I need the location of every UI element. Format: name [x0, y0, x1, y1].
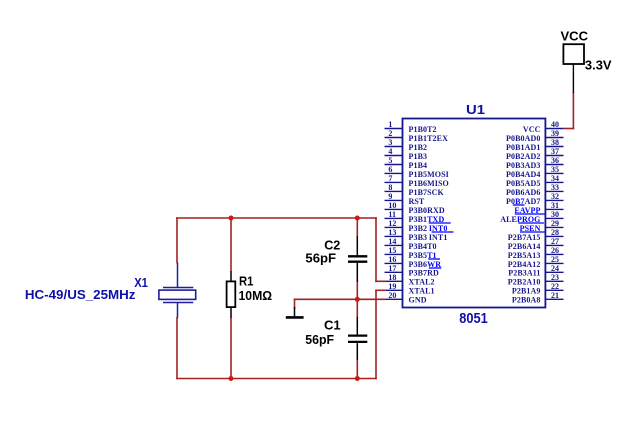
svg-text:15: 15 — [388, 246, 396, 255]
svg-text:5: 5 — [388, 156, 392, 165]
svg-text:26: 26 — [551, 246, 559, 255]
svg-text:3.3V: 3.3V — [585, 58, 612, 73]
svg-text:37: 37 — [551, 147, 559, 156]
svg-text:14: 14 — [388, 237, 396, 246]
svg-text:34: 34 — [551, 174, 559, 183]
svg-text:RST: RST — [409, 197, 425, 206]
svg-text:11: 11 — [388, 210, 396, 219]
svg-text:P2B6A14: P2B6A14 — [508, 242, 541, 251]
svg-text:16: 16 — [388, 255, 396, 264]
svg-text:P1B7SCK: P1B7SCK — [409, 188, 445, 197]
svg-text:C1: C1 — [324, 318, 341, 333]
svg-text:VCC: VCC — [561, 29, 589, 44]
svg-text:8051: 8051 — [459, 310, 488, 327]
svg-text:P2B2A10: P2B2A10 — [508, 278, 541, 287]
svg-text:32: 32 — [551, 192, 559, 201]
svg-text:P2B1A9: P2B1A9 — [512, 287, 541, 296]
svg-text:3: 3 — [388, 138, 392, 147]
svg-text:33: 33 — [551, 183, 559, 192]
svg-text:P3B4T0: P3B4T0 — [409, 242, 437, 251]
svg-text:29: 29 — [551, 219, 559, 228]
svg-text:35: 35 — [551, 165, 559, 174]
svg-text:P3B3 INT1: P3B3 INT1 — [409, 233, 448, 242]
svg-text:P1B1T2EX: P1B1T2EX — [409, 134, 449, 143]
svg-text:P2B7A15: P2B7A15 — [508, 233, 541, 242]
svg-text:13: 13 — [388, 228, 396, 237]
svg-text:P0B4AD4: P0B4AD4 — [506, 170, 540, 179]
svg-text:P2B5A13: P2B5A13 — [508, 251, 541, 260]
svg-text:P3B7RD: P3B7RD — [409, 269, 439, 278]
svg-text:36: 36 — [551, 156, 559, 165]
svg-text:8: 8 — [388, 183, 392, 192]
svg-text:56pF: 56pF — [305, 332, 334, 347]
svg-text:P0B1AD1: P0B1AD1 — [506, 143, 540, 152]
svg-text:28: 28 — [551, 228, 559, 237]
svg-text:P1B3: P1B3 — [409, 152, 428, 161]
svg-text:24: 24 — [551, 264, 559, 273]
svg-text:6: 6 — [388, 165, 392, 174]
svg-text:P2B4A12: P2B4A12 — [508, 260, 541, 269]
svg-text:27: 27 — [551, 237, 559, 246]
svg-text:P0B3AD3: P0B3AD3 — [506, 161, 540, 170]
svg-text:10MΩ: 10MΩ — [239, 288, 273, 303]
svg-text:U1: U1 — [466, 103, 485, 117]
svg-text:39: 39 — [551, 129, 559, 138]
svg-text:19: 19 — [388, 282, 396, 291]
svg-text:31: 31 — [551, 201, 559, 210]
svg-text:P1B6MISO: P1B6MISO — [409, 179, 449, 188]
svg-text:4: 4 — [388, 147, 392, 156]
svg-text:P0B6AD6: P0B6AD6 — [506, 188, 540, 197]
svg-text:P2B0A8: P2B0A8 — [512, 296, 541, 305]
svg-text:P0B5AD5: P0B5AD5 — [506, 179, 540, 188]
svg-text:X1: X1 — [134, 275, 148, 290]
svg-text:P3B0RXD: P3B0RXD — [409, 206, 445, 215]
svg-text:P1B4: P1B4 — [409, 161, 428, 170]
svg-text:2: 2 — [388, 129, 392, 138]
svg-text:23: 23 — [551, 273, 559, 282]
svg-text:GND: GND — [409, 296, 427, 305]
svg-text:P1B0T2: P1B0T2 — [409, 125, 437, 134]
svg-text:P1B5MOSI: P1B5MOSI — [409, 170, 449, 179]
svg-text:VCC: VCC — [523, 125, 541, 134]
svg-text:12: 12 — [388, 219, 396, 228]
svg-text:1: 1 — [388, 120, 392, 129]
svg-text:7: 7 — [388, 174, 392, 183]
svg-text:17: 17 — [388, 264, 396, 273]
svg-text:9: 9 — [388, 192, 392, 201]
svg-text:38: 38 — [551, 138, 559, 147]
svg-text:21: 21 — [551, 291, 559, 300]
svg-text:P2B3A11: P2B3A11 — [508, 269, 540, 278]
svg-text:P0B2AD2: P0B2AD2 — [506, 152, 540, 161]
svg-text:56pF: 56pF — [305, 251, 336, 266]
svg-text:R1: R1 — [239, 273, 253, 288]
svg-text:30: 30 — [551, 210, 559, 219]
svg-text:XTAL1: XTAL1 — [409, 287, 435, 296]
svg-text:20: 20 — [388, 291, 396, 300]
svg-text:HC-49/US_25MHz: HC-49/US_25MHz — [25, 287, 136, 302]
svg-text:P0B0AD0: P0B0AD0 — [506, 134, 540, 143]
svg-text:22: 22 — [551, 282, 559, 291]
svg-text:18: 18 — [388, 273, 396, 282]
svg-text:10: 10 — [388, 201, 396, 210]
svg-text:XTAL2: XTAL2 — [409, 278, 435, 287]
svg-text:40: 40 — [551, 120, 559, 129]
svg-text:P1B2: P1B2 — [409, 143, 428, 152]
svg-text:25: 25 — [551, 255, 559, 264]
